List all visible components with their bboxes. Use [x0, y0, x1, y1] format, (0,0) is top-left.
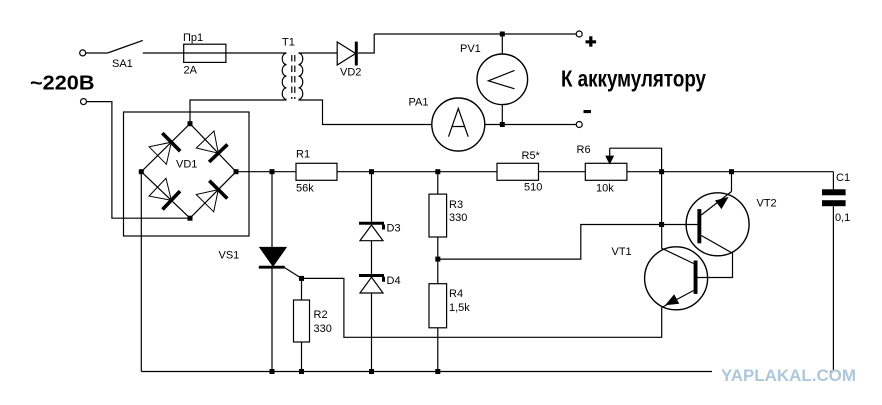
diode VD2 [337, 42, 356, 66]
bridge diode VD1.1 (minus node to AC top) [149, 133, 180, 164]
transistor VT1 [645, 225, 708, 310]
svg-text:PV1: PV1 [460, 43, 481, 55]
svg-text:Пр1: Пр1 [183, 32, 203, 44]
svg-text:R6: R6 [577, 144, 591, 156]
node: VS1 anode junction [270, 169, 275, 174]
svg-text:T1: T1 [282, 37, 295, 49]
svg-text:D4: D4 [387, 275, 401, 287]
svg-text:1,5k: 1,5k [449, 302, 470, 314]
wire: divider tap to VT2 base [438, 225, 662, 260]
svg-text:2А: 2А [184, 65, 198, 77]
node: D4 rail junction [369, 369, 374, 374]
svg-text:R1: R1 [296, 149, 310, 161]
wire [501, 34, 503, 54]
resistor R3 [429, 172, 447, 284]
switch SA1 blade [108, 40, 143, 53]
thyristor VS1 [259, 172, 302, 372]
node: PV1 minus junction [500, 122, 505, 127]
capacitor C1 [822, 172, 846, 372]
node: R3/R4 divider tap junction [435, 257, 440, 262]
svg-text:330: 330 [314, 323, 332, 335]
svg-text:VS1: VS1 [219, 250, 240, 262]
wire: top rail to + terminal [374, 33, 576, 35]
node: VS1 cathode rail junction [270, 369, 275, 374]
transistor VT2 [686, 172, 749, 278]
transformer T1 [282, 53, 303, 99]
svg-text:D3: D3 [387, 223, 401, 235]
wire [226, 52, 287, 54]
svg-text:56k: 56k [296, 183, 314, 195]
svg-text:330: 330 [449, 212, 467, 224]
svg-text:VD2: VD2 [340, 67, 361, 79]
wire: primary bottom to bridge top node [190, 100, 287, 124]
svg-text:R5*: R5* [522, 150, 541, 162]
svg-text:SA1: SA1 [112, 58, 133, 70]
wire: bottom rail [141, 371, 833, 373]
voltmeter PV1 [477, 54, 528, 105]
bridge diode VD1.4 (AC bottom to plus node) [196, 181, 227, 212]
wire [358, 34, 374, 53]
svg-text:YAPLAKAL.COM: YAPLAKAL.COM [721, 366, 856, 385]
bridge diode VD1.3 (minus node to AC bottom) [149, 178, 180, 209]
resistor R4 [429, 284, 447, 372]
node: bridge AC top junction [188, 121, 193, 126]
node: R2 rail junction [299, 369, 304, 374]
node: AC input terminal top [80, 50, 86, 56]
resistor R2 [294, 278, 310, 371]
svg-text:К аккумулятору: К аккумулятору [561, 66, 706, 92]
node: D3 top junction [369, 169, 374, 174]
resistor R1 [296, 163, 337, 180]
bridge rectifier VD1 box [124, 112, 250, 236]
wire: wiper loop [610, 148, 662, 172]
watermark YAPLAKAL.COM [712, 366, 856, 385]
wire: bridge minus leg [140, 172, 142, 372]
svg-text:510: 510 [524, 182, 542, 194]
node: bridge AC bottom junction [188, 216, 193, 221]
node: + output terminal [576, 31, 582, 37]
wire [539, 171, 586, 173]
bridge diamond wires [141, 124, 236, 219]
node: AC input terminal bottom [81, 99, 87, 105]
node: PV1 plus junction [500, 32, 505, 37]
node: R4 rail junction [435, 369, 440, 374]
wire: lower AC lead to bridge bottom node [87, 102, 190, 219]
wire [143, 52, 184, 54]
node: - output terminal [576, 122, 582, 128]
label + [586, 36, 597, 46]
zener D3 [359, 172, 384, 241]
svg-text:VT1: VT1 [612, 246, 632, 258]
wire [86, 52, 108, 54]
resistor R5 [497, 163, 539, 180]
node: VT2 base junction [659, 222, 664, 227]
wire [661, 172, 663, 225]
potentiometer R6 [585, 163, 627, 180]
svg-text:~220В: ~220В [30, 73, 95, 95]
svg-text:R4: R4 [449, 288, 463, 300]
bridge diode VD1.2 (AC top to plus node) [196, 131, 227, 162]
node: VT2 emitter junction [729, 169, 734, 174]
wire: VT2 base lead [662, 224, 698, 226]
wire [299, 52, 338, 54]
fuse FU Пр1 [184, 44, 226, 62]
wire [501, 105, 503, 125]
ammeter PA1 [432, 98, 485, 151]
svg-text:0,1: 0,1 [835, 212, 850, 224]
node: R3 top junction [435, 169, 440, 174]
wire: gate net to VT1 emitter [302, 278, 662, 337]
node: R6 wiper junction [659, 169, 664, 174]
node: bridge plus junction [234, 169, 239, 174]
svg-text:VD1: VD1 [176, 159, 197, 171]
svg-text:10k: 10k [596, 183, 614, 195]
label - [584, 110, 592, 113]
potentiometer R6 wiper arrow [606, 148, 613, 163]
node: bridge minus junction [139, 169, 144, 174]
wire [627, 171, 834, 173]
wire [236, 171, 296, 173]
svg-text:R3: R3 [449, 199, 463, 211]
svg-text:R2: R2 [314, 309, 328, 321]
wire [485, 124, 576, 126]
node: VS1 gate junction [299, 276, 304, 281]
wire: secondary bottom to ammeter [299, 100, 432, 125]
svg-text:VT2: VT2 [757, 198, 777, 210]
zener D4 [359, 241, 384, 372]
svg-text:C1: C1 [836, 172, 850, 184]
svg-text:PA1: PA1 [409, 97, 429, 109]
wire [337, 171, 497, 173]
